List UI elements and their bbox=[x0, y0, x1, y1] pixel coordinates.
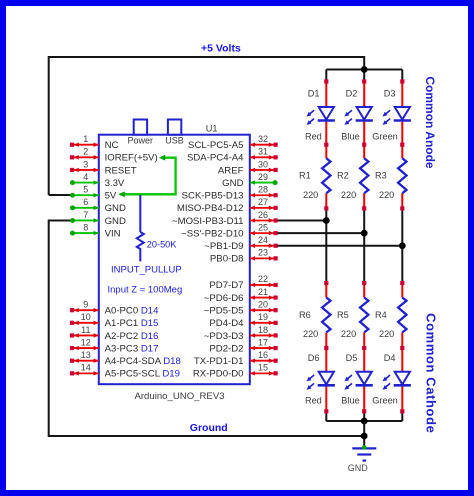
pin 27 MISO-PB4-D12 bbox=[177, 197, 278, 214]
svg-text:RESET: RESET bbox=[105, 165, 137, 176]
svg-text:Common Anode: Common Anode bbox=[423, 76, 437, 169]
pin 16 TX-PD1-D1 bbox=[194, 350, 278, 367]
svg-text:19: 19 bbox=[258, 312, 268, 322]
svg-text:14: 14 bbox=[81, 363, 91, 373]
svg-text:USB: USB bbox=[165, 136, 184, 146]
LED D3 bbox=[395, 107, 410, 120]
USB connector box bbox=[168, 120, 181, 135]
svg-text:23: 23 bbox=[258, 248, 268, 258]
svg-text:SCK-PB5-D13: SCK-PB5-D13 bbox=[182, 191, 244, 202]
svg-text:4: 4 bbox=[83, 172, 88, 182]
wire +5V top rail from left rail to LED bus bbox=[49, 57, 365, 195]
wire pin 26 to R1 node bbox=[276, 219, 327, 221]
resistor R2 bbox=[360, 158, 368, 193]
svg-text:5: 5 bbox=[83, 185, 88, 195]
svg-text:VIN: VIN bbox=[105, 228, 121, 239]
svg-text:Input Z = 100Meg: Input Z = 100Meg bbox=[108, 285, 183, 296]
wire pin 25 to R2 node bbox=[276, 232, 365, 234]
wire R1 bottom pin bbox=[325, 193, 327, 208]
pin 18 ~PD3-D3 bbox=[204, 325, 278, 342]
wire top bus drop column 1 bbox=[325, 70, 327, 82]
svg-text:30: 30 bbox=[258, 159, 268, 169]
svg-text:PD4-D4: PD4-D4 bbox=[209, 318, 244, 329]
node junction R2/column2 bbox=[361, 230, 368, 237]
svg-text:TX-PD1-D1: TX-PD1-D1 bbox=[194, 356, 244, 367]
pin 12 A3-PC3 D17 bbox=[70, 337, 159, 354]
svg-text:~PD6-D6: ~PD6-D6 bbox=[204, 293, 244, 304]
resistor R4 bbox=[398, 298, 406, 333]
svg-text:GND: GND bbox=[105, 203, 126, 214]
svg-text:D6: D6 bbox=[308, 353, 320, 363]
pin 28 SCK-PB5-D13 bbox=[182, 185, 278, 202]
svg-text:17: 17 bbox=[258, 337, 268, 347]
wire R5 top pin bbox=[363, 283, 365, 298]
wire cathode D2 to R2 bbox=[363, 121, 365, 159]
svg-text:21: 21 bbox=[258, 287, 268, 297]
svg-text:~PD3-D3: ~PD3-D3 bbox=[204, 331, 244, 342]
node junction R3/column3 bbox=[399, 242, 406, 249]
pin 4 3.3V bbox=[70, 172, 125, 189]
pin 26 ~MOSI-PB3-D11 bbox=[172, 210, 278, 227]
LED D1 bbox=[319, 107, 334, 120]
svg-text:A2-PC2 D16: A2-PC2 D16 bbox=[105, 331, 159, 342]
wire cathode D1 to R1 bbox=[325, 121, 327, 159]
svg-text:D1: D1 bbox=[308, 88, 320, 98]
svg-text:26: 26 bbox=[258, 210, 268, 220]
wire R6 to D6 bbox=[325, 332, 327, 371]
svg-text:AREF: AREF bbox=[218, 165, 244, 176]
svg-text:R4: R4 bbox=[375, 310, 387, 320]
wire bottom bus to ground rail bbox=[363, 421, 365, 448]
svg-text:220: 220 bbox=[341, 329, 356, 339]
svg-text:PD2-D2: PD2-D2 bbox=[209, 343, 243, 354]
resistor R6 bbox=[322, 298, 330, 333]
svg-text:U1: U1 bbox=[206, 124, 218, 134]
power connector box bbox=[134, 120, 147, 135]
ground symbol bbox=[352, 445, 376, 461]
LED D6 bbox=[319, 372, 334, 385]
svg-text:MISO-PB4-D12: MISO-PB4-D12 bbox=[177, 203, 244, 214]
pin 30 AREF bbox=[218, 159, 278, 176]
svg-text:INPUT_PULLUP: INPUT_PULLUP bbox=[111, 265, 182, 276]
wire column 1 into bottom bus bbox=[325, 411, 327, 421]
pin 2 IOREF(+5V) bbox=[70, 147, 158, 164]
pin 5 5V bbox=[70, 185, 117, 202]
svg-text:D5: D5 bbox=[346, 353, 358, 363]
svg-text:28: 28 bbox=[258, 185, 268, 195]
wire anode pin D2 bbox=[363, 82, 365, 108]
svg-text:Blue: Blue bbox=[341, 131, 359, 141]
Arduino chip body U1 bbox=[99, 135, 250, 385]
node bottom bus junction bbox=[361, 418, 368, 425]
svg-text:SCL-PC5-A5: SCL-PC5-A5 bbox=[188, 140, 243, 151]
svg-text:16: 16 bbox=[258, 350, 268, 360]
svg-text:Green: Green bbox=[372, 131, 398, 141]
pin 24 ~PB1-D9 bbox=[204, 235, 277, 252]
svg-text:D4: D4 bbox=[384, 353, 396, 363]
pin 20 ~PD5-D5 bbox=[204, 299, 278, 316]
svg-text:2: 2 bbox=[83, 147, 88, 157]
svg-text:7: 7 bbox=[83, 210, 88, 220]
pin 17 PD2-D2 bbox=[209, 337, 277, 354]
svg-text:PB0-D8: PB0-D8 bbox=[210, 254, 244, 265]
svg-text:22: 22 bbox=[258, 274, 268, 284]
pin 21 ~PD6-D6 bbox=[204, 287, 278, 304]
pin 29 GND bbox=[222, 172, 277, 189]
svg-text:D3: D3 bbox=[384, 88, 396, 98]
pin 9 A0-PC0 D14 bbox=[70, 299, 159, 316]
svg-text:~PB1-D9: ~PB1-D9 bbox=[204, 241, 243, 252]
node junction R1/column1 bbox=[323, 217, 330, 224]
pin 14 A5-PC5-SCL D19 bbox=[70, 363, 180, 380]
svg-text:25: 25 bbox=[258, 222, 268, 232]
wire cathode D3 to R3 bbox=[401, 121, 403, 159]
wire common-anode top bus bbox=[326, 69, 402, 71]
svg-text:R1: R1 bbox=[299, 171, 311, 181]
svg-text:18: 18 bbox=[258, 325, 268, 335]
svg-text:29: 29 bbox=[258, 172, 268, 182]
resistor R1 bbox=[322, 158, 330, 193]
svg-text:220: 220 bbox=[303, 329, 318, 339]
resistor internal pullup 20-50K bbox=[139, 195, 141, 232]
LED D4 bbox=[395, 372, 410, 385]
wire internal +5V link (green) bbox=[120, 158, 176, 195]
svg-text:10: 10 bbox=[81, 312, 91, 322]
svg-text:220: 220 bbox=[379, 190, 394, 200]
wire top bus drop column 3 bbox=[401, 70, 403, 82]
pin 3 RESET bbox=[70, 159, 137, 176]
pin 25 ~SS'-PB2-D10 bbox=[181, 222, 278, 239]
wire R4 to D4 bbox=[401, 332, 403, 371]
svg-text:GND: GND bbox=[222, 178, 243, 189]
svg-text:IOREF(+5V): IOREF(+5V) bbox=[105, 153, 158, 164]
wire anode pin D1 bbox=[325, 82, 327, 108]
svg-text:SDA-PC4-A4: SDA-PC4-A4 bbox=[187, 153, 244, 164]
resistor R3 bbox=[398, 158, 406, 193]
wire pin 24 to R3 node bbox=[276, 245, 403, 247]
svg-text:8: 8 bbox=[83, 222, 88, 232]
wire column 2 mid segment bbox=[363, 208, 365, 283]
pin 13 A4-PC4-SDA D18 bbox=[70, 350, 181, 367]
wire common-cathode bottom bus bbox=[326, 420, 402, 422]
svg-text:32: 32 bbox=[258, 134, 268, 144]
pin 19 PD4-D4 bbox=[209, 312, 277, 329]
svg-text:20: 20 bbox=[258, 299, 268, 309]
pin 8 VIN bbox=[70, 222, 121, 239]
svg-text:220: 220 bbox=[379, 329, 394, 339]
svg-text:R3: R3 bbox=[375, 171, 387, 181]
pin 32 SCL-PC5-A5 bbox=[188, 134, 278, 151]
pin 11 A2-PC2 D16 bbox=[70, 325, 159, 342]
svg-text:Green: Green bbox=[372, 396, 398, 406]
svg-text:27: 27 bbox=[258, 197, 268, 207]
svg-text:15: 15 bbox=[258, 363, 268, 373]
resistor R5 bbox=[360, 298, 368, 333]
wire anode pin D3 bbox=[401, 82, 403, 108]
svg-text:R2: R2 bbox=[337, 171, 349, 181]
svg-text:5V: 5V bbox=[105, 191, 117, 202]
svg-text:Common Cathode: Common Cathode bbox=[424, 313, 439, 433]
svg-text:11: 11 bbox=[81, 325, 90, 335]
wire D5 cathode pin bbox=[363, 385, 365, 411]
wire D4 cathode pin bbox=[401, 385, 403, 411]
svg-text:RX-PD0-D0: RX-PD0-D0 bbox=[193, 369, 244, 380]
wire R2 bottom pin bbox=[363, 193, 365, 208]
pin 31 SDA-PC4-A4 bbox=[187, 147, 278, 164]
pin 22 PD7-D7 bbox=[209, 274, 277, 291]
svg-text:31: 31 bbox=[258, 147, 268, 157]
svg-text:Red: Red bbox=[305, 131, 322, 141]
svg-text:NC: NC bbox=[105, 140, 119, 151]
pin 23 PB0-D8 bbox=[210, 248, 278, 265]
svg-text:GND: GND bbox=[105, 216, 126, 227]
wire column 3 mid segment bbox=[401, 208, 403, 283]
svg-text:~MOSI-PB3-D11: ~MOSI-PB3-D11 bbox=[172, 216, 244, 227]
pin 10 A1-PC1 D15 bbox=[70, 312, 159, 329]
wire +5V rail to pin 5 bbox=[49, 194, 72, 196]
node +5V junction on top bus bbox=[361, 66, 368, 73]
svg-text:9: 9 bbox=[83, 299, 88, 309]
wire D6 cathode pin bbox=[325, 385, 327, 411]
node ground rail junction bbox=[361, 433, 368, 440]
svg-text:R6: R6 bbox=[299, 310, 311, 320]
svg-text:13: 13 bbox=[81, 350, 91, 360]
wire R4 top pin bbox=[401, 283, 403, 298]
svg-text:GND: GND bbox=[348, 463, 369, 473]
svg-text:Arduino_UNO_REV3: Arduino_UNO_REV3 bbox=[134, 391, 224, 402]
wire column 1 mid segment bbox=[325, 208, 327, 283]
svg-text:220: 220 bbox=[303, 190, 318, 200]
LED D5 bbox=[357, 372, 372, 385]
svg-text:3: 3 bbox=[83, 159, 88, 169]
svg-text:220: 220 bbox=[341, 190, 356, 200]
pin 6 GND bbox=[70, 197, 126, 214]
svg-text:~SS'-PB2-D10: ~SS'-PB2-D10 bbox=[181, 228, 243, 239]
wire R6 top pin bbox=[325, 283, 327, 298]
svg-text:6: 6 bbox=[83, 197, 88, 207]
svg-text:Ground: Ground bbox=[190, 422, 228, 434]
svg-text:Power: Power bbox=[128, 136, 154, 146]
svg-text:1: 1 bbox=[83, 134, 88, 144]
wire R5 to D5 bbox=[363, 332, 365, 371]
wire ground rail from pin 7 down and across bottom bbox=[49, 220, 365, 436]
wire R3 bottom pin bbox=[401, 193, 403, 208]
svg-text:A1-PC1 D15: A1-PC1 D15 bbox=[105, 318, 159, 329]
svg-text:~PD5-D5: ~PD5-D5 bbox=[204, 305, 244, 316]
svg-text:24: 24 bbox=[258, 235, 268, 245]
wire column 3 into bottom bus bbox=[401, 411, 403, 421]
pin 1 NC bbox=[70, 134, 119, 151]
wire top bus drop column 2 bbox=[363, 70, 365, 82]
svg-text:20-50K: 20-50K bbox=[147, 239, 177, 249]
svg-text:A4-PC4-SDA D18: A4-PC4-SDA D18 bbox=[105, 356, 181, 367]
svg-text:D2: D2 bbox=[346, 88, 358, 98]
LED D2 bbox=[357, 107, 372, 120]
svg-text:+5 Volts: +5 Volts bbox=[201, 43, 241, 55]
pin 7 GND bbox=[70, 210, 126, 227]
svg-text:PD7-D7: PD7-D7 bbox=[209, 280, 243, 291]
svg-text:Red: Red bbox=[305, 396, 322, 406]
pin 15 RX-PD0-D0 bbox=[193, 363, 278, 380]
svg-text:A0-PC0 D14: A0-PC0 D14 bbox=[105, 305, 160, 316]
svg-text:A5-PC5-SCL D19: A5-PC5-SCL D19 bbox=[105, 369, 180, 380]
svg-text:R5: R5 bbox=[337, 310, 349, 320]
wire column 2 into bottom bus bbox=[363, 411, 365, 421]
svg-text:Blue: Blue bbox=[341, 396, 359, 406]
svg-text:3.3V: 3.3V bbox=[105, 178, 125, 189]
svg-text:12: 12 bbox=[81, 337, 91, 347]
svg-text:A3-PC3 D17: A3-PC3 D17 bbox=[105, 343, 159, 354]
